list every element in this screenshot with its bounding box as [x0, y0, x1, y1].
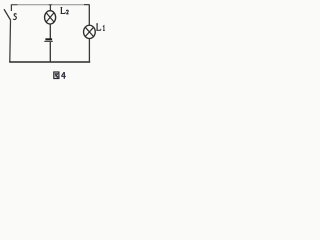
wire top rail — [12, 4, 90, 6]
wire L2 branch top stub — [49, 5, 51, 11]
label L2 — [61, 7, 69, 14]
wire L1 to bottom rail — [88, 39, 90, 62]
switch label s — [13, 14, 16, 20]
wire top rail darker segment right corner — [84, 4, 89, 6]
wire top-left corner stub (switch top contact) — [10, 4, 12, 11]
caption numeral 4 (drawn strokes) — [61, 72, 66, 79]
caption character 图 (drawn strokes) — [54, 72, 59, 79]
battery cell: short thick plate — [45, 38, 52, 40]
wire bottom rail — [9, 61, 90, 63]
wire top rail darker segment left corner — [11, 4, 17, 6]
wire battery to bottom rail — [49, 42, 51, 62]
wire lamp L2 to battery — [49, 24, 51, 39]
lamp L2 — [45, 11, 56, 24]
battery cell: long thin plate — [44, 40, 53, 42]
label L1 — [96, 24, 105, 31]
lamp L1 — [84, 25, 96, 38]
switch S lever — [4, 9, 11, 20]
wire right side top (through top-right corner) — [88, 4, 90, 25]
wire left side — [9, 20, 12, 62]
wire top rail darker segment at L2 junction — [49, 4, 52, 6]
